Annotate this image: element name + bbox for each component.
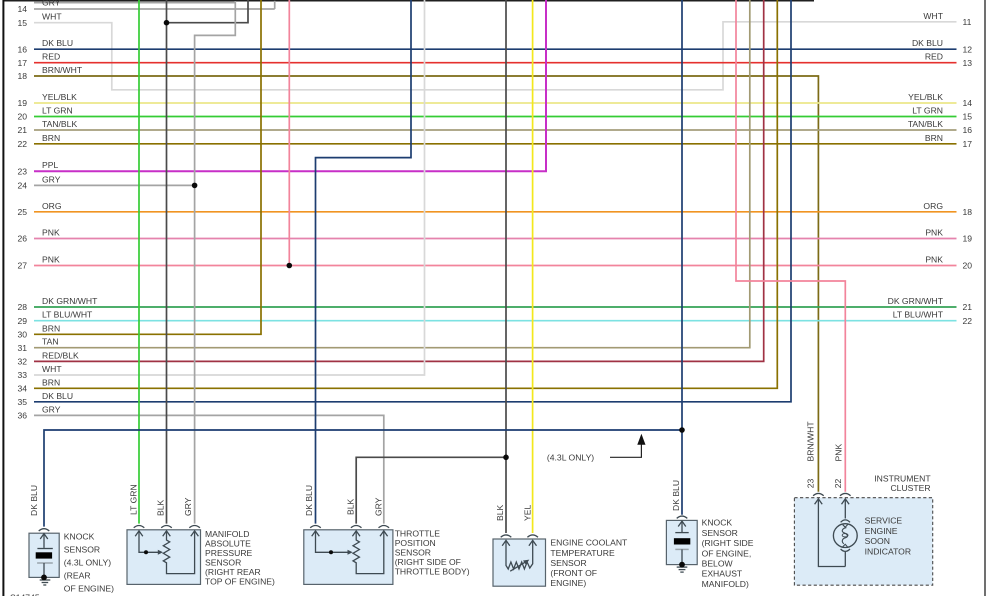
svg-text:POSITION: POSITION — [395, 538, 436, 548]
instrument cluster connector arcs — [813, 493, 824, 495]
wire BLK branch: jog from junction at (166.5,22.7) up to top edge — [167, 0, 249, 23]
svg-text:ENGINE COOLANT: ENGINE COOLANT — [550, 538, 628, 548]
svg-text:TAN/BLK: TAN/BLK — [908, 119, 943, 129]
TPS resistor and elbow to GRY pin — [353, 531, 384, 574]
wire 22 BRN: left row 22 to right row 17 — [34, 143, 957, 145]
knock sensor 1 connector arc — [39, 529, 50, 531]
MAP sensor connector arcs — [134, 526, 145, 528]
instrument cluster pin arrows — [815, 499, 823, 504]
svg-text:34: 34 — [17, 384, 27, 394]
svg-text:LT BLU/WHT: LT BLU/WHT — [893, 310, 944, 320]
wire DK BLU branch: from junction at (682,430) across and down to knock sensor 1 — [44, 430, 682, 527]
junction: MAP wiper node — [144, 550, 148, 554]
svg-text:(RIGHT SIDE OF: (RIGHT SIDE OF — [395, 557, 461, 567]
svg-text:DK BLU: DK BLU — [29, 485, 39, 516]
svg-text:14: 14 — [963, 98, 973, 108]
knock sensor 2 pin arrow — [678, 521, 686, 526]
svg-text:20: 20 — [963, 261, 973, 271]
junction: BLK wire T to ECT and TPS — [503, 455, 509, 461]
wire 27 PNK: left row 27 to right row 20 — [34, 265, 957, 267]
wire 29 LT BLU/WHT: left row 29 to right row 22 — [34, 320, 957, 322]
svg-text:YEL/BLK: YEL/BLK — [42, 92, 77, 102]
svg-text:ABSOLUTE: ABSOLUTE — [205, 538, 251, 548]
svg-text:DK BLU: DK BLU — [912, 38, 943, 48]
wire 30 BRN: left row 30 to riser exiting top — [34, 0, 261, 334]
svg-text:LT GRN: LT GRN — [42, 106, 73, 116]
TPS wiper from DK BLU pin — [316, 531, 349, 552]
svg-text:23: 23 — [17, 166, 27, 176]
wire DK BLU: from top edge jog down to TPS DK BLU pin — [316, 0, 412, 524]
knock sensor 1 piezo element — [37, 548, 52, 550]
svg-text:S14745: S14745 — [10, 593, 40, 596]
svg-text:MANIFOLD: MANIFOLD — [205, 529, 249, 539]
svg-text:YEL/BLK: YEL/BLK — [908, 92, 943, 102]
svg-text:LT GRN: LT GRN — [129, 484, 139, 515]
wire 26 PNK: left row 26 to right row 19 — [34, 238, 957, 240]
svg-text:BRN: BRN — [42, 323, 60, 333]
svg-text:36: 36 — [17, 411, 27, 421]
wire 35 DK BLU: left row 35 to riser exiting top — [34, 0, 791, 402]
svg-text:BRN: BRN — [925, 133, 943, 143]
knock sensor 2 ground symbol — [677, 566, 688, 568]
wire DK BLU: from top edge down to knock sensor 2, junction at (682,430) — [681, 0, 683, 515]
svg-text:ENGINE): ENGINE) — [550, 578, 586, 588]
wire BLK branch: from junction at (506,457.3) to TPS BLK pin — [356, 457, 506, 523]
svg-text:12: 12 — [963, 44, 973, 54]
svg-text:BLK: BLK — [156, 499, 166, 516]
svg-text:17: 17 — [17, 58, 27, 68]
wire 23 PPL: left row 23 to riser exiting top — [34, 0, 546, 171]
svg-text:DK BLU: DK BLU — [304, 485, 314, 516]
svg-text:ENGINE: ENGINE — [865, 526, 898, 536]
TPS pin arrows — [312, 531, 320, 536]
svg-text:30: 30 — [17, 330, 27, 340]
svg-text:PNK: PNK — [42, 228, 60, 238]
wire: left frame border — [2, 0, 4, 596]
svg-text:BELOW: BELOW — [702, 559, 734, 569]
svg-text:GRY: GRY — [373, 497, 383, 516]
svg-text:23: 23 — [806, 479, 816, 489]
wire 19 YEL/BLK: left row 19 to right row 14 — [34, 102, 957, 104]
wire YEL: from top edge down to ECT YEL pin — [532, 0, 534, 533]
svg-text:21: 21 — [17, 125, 27, 135]
TPS connector arcs — [310, 526, 321, 528]
svg-text:BLK: BLK — [495, 504, 505, 521]
wire LT GRN: from top edge down to MAP sensor pin — [138, 0, 140, 524]
svg-text:TOP OF ENGINE): TOP OF ENGINE) — [205, 576, 275, 586]
svg-text:SENSOR: SENSOR — [395, 548, 431, 558]
svg-text:BRN: BRN — [42, 133, 60, 143]
svg-text:PNK: PNK — [834, 444, 844, 462]
svg-text:DK BLU: DK BLU — [42, 391, 73, 401]
svg-text:14: 14 — [17, 4, 27, 14]
svg-text:KNOCK: KNOCK — [702, 518, 733, 528]
svg-text:PRESSURE: PRESSURE — [205, 548, 253, 558]
svg-text:20: 20 — [17, 112, 27, 122]
svg-text:LT BLU/WHT: LT BLU/WHT — [42, 310, 93, 320]
svg-text:DK BLU: DK BLU — [42, 38, 73, 48]
svg-text:ORG: ORG — [42, 201, 62, 211]
(4.3L ONLY) pointer arrow to DK BLU wire — [610, 445, 641, 458]
wire 34 BRN: left row 34 to riser exiting top — [34, 0, 777, 388]
cluster internal wire pin 22 down to lamp — [844, 499, 846, 519]
svg-text:EXHAUST: EXHAUST — [702, 569, 743, 579]
svg-text:16: 16 — [963, 125, 973, 135]
junction: TPS wiper node — [329, 550, 333, 554]
svg-text:17: 17 — [963, 139, 973, 149]
knock sensor 1 box — [29, 533, 59, 577]
service engine soon lamp terminal arcs — [841, 520, 850, 522]
svg-text:GRY: GRY — [42, 174, 61, 184]
svg-text:LT GRN: LT GRN — [912, 106, 943, 116]
svg-text:PNK: PNK — [925, 228, 943, 238]
svg-text:33: 33 — [17, 370, 27, 380]
svg-text:ORG: ORG — [923, 201, 943, 211]
svg-text:BRN/WHT: BRN/WHT — [806, 421, 816, 462]
svg-text:15: 15 — [17, 18, 27, 28]
svg-text:(4.3L ONLY): (4.3L ONLY) — [547, 453, 594, 463]
wire 24 GRY: left row 24 to junction with MAP GRY riser — [34, 184, 195, 186]
wire 18 BRN/WHT: left row 18 down to instrument cluster pin 23 — [34, 76, 818, 492]
svg-text:TEMPERATURE: TEMPERATURE — [550, 548, 615, 558]
wire 32 RED/BLK: left row 32 to riser exiting top — [34, 0, 764, 361]
cluster lamp lower lead — [844, 552, 846, 567]
svg-text:31: 31 — [17, 343, 27, 353]
svg-text:OF ENGINE): OF ENGINE) — [64, 584, 114, 594]
junction: row 24 GRY with MAP GRY riser — [192, 183, 198, 189]
svg-text:22: 22 — [833, 479, 843, 489]
MAP sensor wiper from LT GRN pin — [139, 531, 159, 552]
svg-text:22: 22 — [17, 139, 27, 149]
svg-text:CLUSTER: CLUSTER — [890, 483, 930, 493]
service engine soon lamp bulb circle — [833, 524, 857, 548]
svg-text:YEL: YEL — [522, 505, 532, 521]
svg-text:DK GRN/WHT: DK GRN/WHT — [888, 296, 944, 306]
svg-text:KNOCK: KNOCK — [64, 531, 95, 541]
ECT sensor pin arrows — [502, 540, 510, 545]
wire 36 GRY: left row 36 down to TPS GRY pin — [34, 415, 384, 523]
svg-text:21: 21 — [963, 302, 973, 312]
svg-text:RED: RED — [42, 52, 60, 62]
svg-text:THROTTLE: THROTTLE — [395, 529, 441, 539]
wire 25 ORG: left row 25 to right row 18 — [34, 211, 957, 213]
svg-text:25: 25 — [17, 207, 27, 217]
wire 31 TAN: left row 31 to riser exiting top — [34, 0, 750, 348]
svg-text:TAN: TAN — [42, 337, 59, 347]
svg-text:(RIGHT REAR: (RIGHT REAR — [205, 567, 261, 577]
svg-text:SERVICE: SERVICE — [865, 516, 903, 526]
svg-text:BRN: BRN — [42, 377, 60, 387]
wire PNK: from top edge jog down to instrument cluster pin 22 — [736, 0, 845, 492]
junction: DK BLU T to both knock sensors — [679, 427, 685, 433]
svg-text:SENSOR: SENSOR — [205, 557, 241, 567]
svg-text:SENSOR: SENSOR — [702, 528, 738, 538]
wire PNK: from top edge down to junction on row 27 — [288, 0, 290, 266]
svg-text:WHT: WHT — [923, 11, 943, 21]
svg-text:22: 22 — [963, 316, 973, 326]
svg-text:16: 16 — [17, 44, 27, 54]
svg-text:BLK: BLK — [345, 498, 355, 515]
svg-text:THROTTLE BODY): THROTTLE BODY) — [395, 567, 470, 577]
wire 33 WHT: left row 33 to riser exiting top — [34, 0, 425, 375]
junction: BLK wire T at row 15 level — [164, 20, 170, 26]
wire: cropped GRY stub at top joining MAP GRY riser — [34, 2, 235, 4]
wire 15 WHT: left row 15, detour down and across to right row 11 — [34, 22, 957, 90]
wire: top border crop bar — [3, 0, 814, 2]
svg-text:26: 26 — [17, 234, 27, 244]
svg-text:OF ENGINE,: OF ENGINE, — [702, 548, 752, 558]
service engine soon lamp filament — [843, 525, 848, 528]
ECT thermistor arrow — [510, 562, 526, 572]
svg-text:13: 13 — [963, 58, 973, 68]
svg-text:PNK: PNK — [42, 255, 60, 265]
knock sensor 1 ground symbol — [40, 579, 51, 581]
svg-text:19: 19 — [17, 98, 27, 108]
svg-text:19: 19 — [963, 234, 973, 244]
svg-text:18: 18 — [963, 207, 973, 217]
svg-text:DK GRN/WHT: DK GRN/WHT — [42, 296, 98, 306]
ECT sensor connector arcs — [501, 535, 512, 537]
svg-text:SENSOR: SENSOR — [550, 558, 586, 568]
svg-text:18: 18 — [17, 71, 27, 81]
knock sensor 2 box — [666, 520, 697, 564]
svg-text:WHT: WHT — [42, 12, 62, 22]
wire 20 LT GRN: left row 20 to right row 15 — [34, 116, 957, 118]
svg-text:MANIFOLD): MANIFOLD) — [702, 579, 749, 589]
svg-text:28: 28 — [17, 302, 27, 312]
wire 16 DK BLU: left row 16 to right row 12 — [34, 48, 957, 50]
wire 17 RED: left row 17 to right row 13 — [34, 62, 957, 64]
svg-text:(4.3L ONLY): (4.3L ONLY) — [64, 558, 111, 568]
svg-text:GRY: GRY — [42, 0, 61, 8]
cluster internal wire pin 23 to lamp return — [818, 499, 845, 567]
svg-text:(REAR: (REAR — [64, 571, 91, 581]
svg-text:35: 35 — [17, 397, 27, 407]
svg-text:SENSOR: SENSOR — [64, 544, 100, 554]
MAP sensor pin arrows — [135, 531, 143, 536]
junction: knock sensor 2 ground node — [679, 562, 685, 568]
svg-text:BRN/WHT: BRN/WHT — [42, 65, 83, 75]
MAP sensor box — [127, 530, 201, 585]
knock sensor 2 connector arc — [677, 516, 688, 518]
instrument cluster dashed box — [794, 498, 932, 586]
engine coolant temperature sensor box — [493, 539, 546, 586]
junction: knock sensor 1 ground node — [41, 575, 47, 581]
MAP sensor resistor and elbow to GRY pin — [163, 531, 194, 574]
svg-text:INDICATOR: INDICATOR — [865, 546, 911, 556]
svg-text:24: 24 — [17, 181, 27, 191]
svg-text:(RIGHT SIDE: (RIGHT SIDE — [702, 538, 754, 548]
wire BLK: from top edge down to MAP sensor BLK pin — [166, 0, 168, 524]
svg-text:RED: RED — [925, 52, 943, 62]
svg-text:32: 32 — [17, 357, 27, 367]
knock sensor 2 piezo element — [675, 532, 688, 534]
svg-text:29: 29 — [17, 316, 27, 326]
wire 21 TAN/BLK: left row 21 to right row 16 — [34, 129, 957, 131]
wire 28 DK GRN/WHT: left row 28 to right row 21 — [34, 306, 957, 308]
svg-text:PPL: PPL — [42, 160, 58, 170]
svg-text:PNK: PNK — [925, 255, 943, 265]
wire BLK: from top edge down to ECT BLK pin with junction at (506,457.3) — [505, 0, 507, 533]
svg-text:15: 15 — [963, 112, 973, 122]
junction: row 27 PNK with PNK riser — [287, 263, 293, 269]
svg-text:TAN/BLK: TAN/BLK — [42, 119, 77, 129]
svg-text:RED/BLK: RED/BLK — [42, 350, 79, 360]
wire GRY: from top edge jog down to MAP sensor GRY pin, junction with row 24 — [195, 1, 236, 524]
svg-text:(FRONT OF: (FRONT OF — [550, 568, 597, 578]
throttle position sensor box — [304, 530, 393, 585]
svg-text:SOON: SOON — [865, 536, 890, 546]
svg-text:27: 27 — [17, 261, 27, 271]
svg-text:INSTRUMENT: INSTRUMENT — [874, 473, 931, 483]
svg-text:GRY: GRY — [42, 404, 61, 414]
wire: right frame border — [984, 0, 986, 596]
ECT thermistor zigzag — [506, 540, 533, 569]
svg-text:DK BLU: DK BLU — [671, 480, 681, 511]
svg-text:WHT: WHT — [42, 364, 62, 374]
svg-text:GRY: GRY — [183, 497, 193, 516]
wire 14 GRY: left row 14 to riser exiting top — [34, 8, 275, 10]
svg-text:11: 11 — [963, 17, 972, 27]
knock sensor 1 pin arrow — [40, 534, 48, 539]
